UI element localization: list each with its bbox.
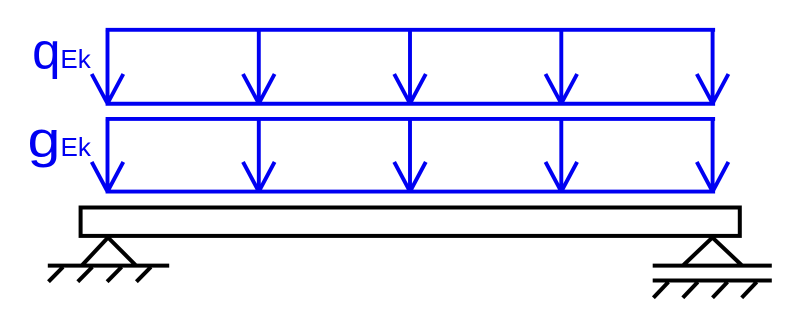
load g_Ek arrow 3 head: [394, 162, 426, 192]
load g_Ek arrow 4 shaft: [559, 119, 563, 190]
load g_Ek arrow 2 shaft: [257, 119, 261, 190]
svg-text:Ek: Ek: [61, 132, 92, 162]
load g_Ek bottom line: [106, 190, 716, 194]
load g_Ek arrow 2 head: [243, 162, 275, 192]
load g_Ek arrow 1 shaft: [106, 119, 110, 190]
load q_Ek arrow 3 head: [394, 74, 426, 104]
right support hatch 1: [653, 282, 668, 298]
label g_Ek: [28, 111, 92, 168]
load q_Ek arrow 1 head: [92, 74, 124, 104]
load g_Ek arrow 3 shaft: [408, 119, 412, 190]
label q_Ek: [32, 23, 92, 80]
load q_Ek arrow 2 head: [243, 74, 275, 104]
right roller support triangle: [683, 238, 742, 266]
load g_Ek arrow 5 head: [697, 162, 729, 192]
beam: [81, 208, 740, 236]
load q_Ek arrow 4 head: [546, 74, 578, 104]
left support ground line: [48, 264, 169, 268]
load q_Ek arrow 3 shaft: [408, 30, 412, 102]
left support hatch 3: [107, 267, 122, 282]
svg-text:Ek: Ek: [60, 44, 91, 74]
left support hatch 1: [49, 267, 64, 282]
load q_Ek arrow 4 shaft: [559, 30, 563, 102]
left pin support triangle: [82, 238, 136, 266]
load g_Ek arrow 5 shaft: [711, 119, 715, 190]
left support hatch 2: [78, 267, 93, 282]
svg-text:g: g: [28, 111, 61, 168]
load q_Ek arrow 5 head: [697, 74, 729, 104]
right support hatch 2: [683, 282, 698, 298]
load q_Ek arrow 1 shaft: [106, 30, 110, 102]
load g_Ek arrow 1 head: [92, 162, 124, 192]
right support roller line: [653, 279, 772, 283]
left support hatch 4: [136, 267, 151, 282]
right support hatch 4: [742, 282, 757, 298]
load g_Ek top line: [106, 117, 716, 121]
right support upper line: [653, 264, 772, 268]
load q_Ek arrow 5 shaft: [711, 30, 715, 102]
load g_Ek arrow 4 head: [546, 162, 578, 192]
load q_Ek top line: [106, 28, 716, 32]
load q_Ek bottom line: [106, 102, 716, 106]
svg-text:q: q: [32, 23, 60, 80]
load q_Ek arrow 2 shaft: [257, 30, 261, 102]
right support hatch 3: [713, 282, 728, 298]
